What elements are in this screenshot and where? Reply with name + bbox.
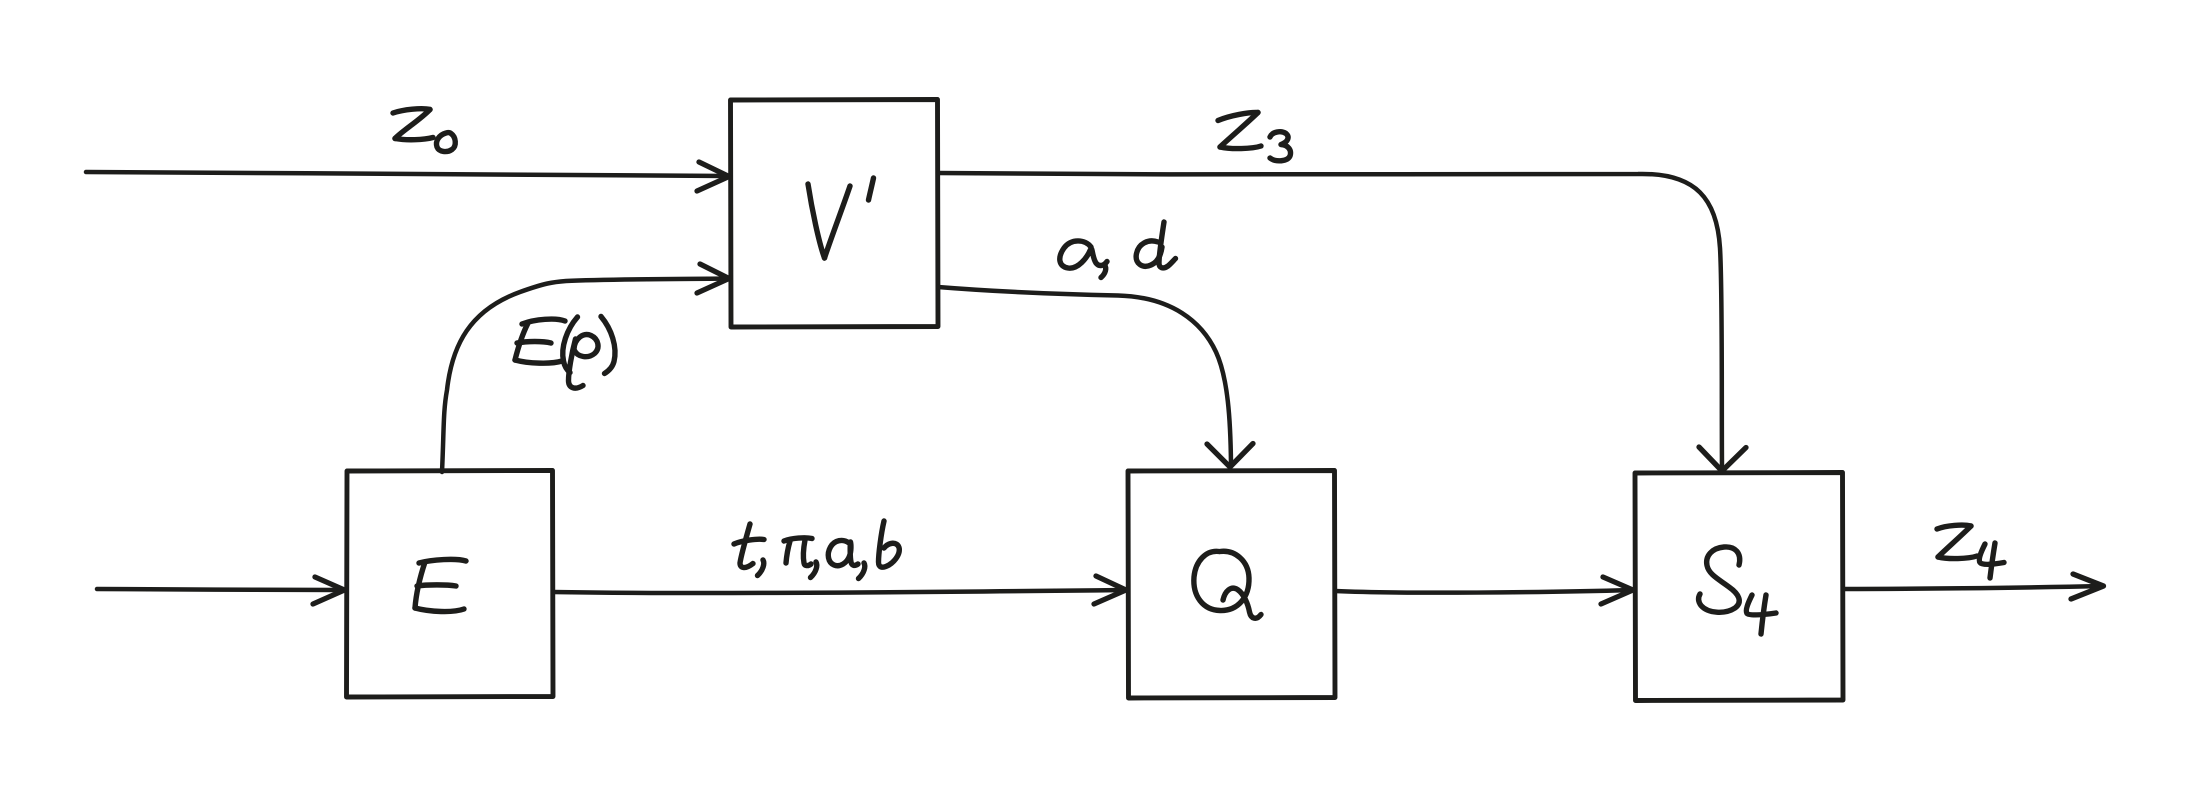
arrowhead into S4 top (1699, 447, 1746, 471)
block Q (1128, 471, 1335, 699)
arrowhead into Q top (1207, 444, 1253, 468)
label alpha, d (1060, 222, 1176, 278)
wire E(rho) curve from E top into V' lower-left input (442, 279, 728, 473)
arrowhead into V' top input (697, 162, 729, 191)
arrowhead into Q left (1094, 576, 1126, 604)
block V' (731, 100, 939, 328)
label E(rho) (515, 317, 615, 389)
wire E to Q (553, 590, 1125, 593)
wire alpha,d curve from V' right into Q top (938, 287, 1231, 464)
label Q (1194, 551, 1261, 618)
wire Z3 with corner down to S4 (938, 173, 1722, 468)
label S4 (1699, 547, 1776, 634)
wire S4 output (1843, 586, 2102, 589)
arrowhead into V' lower input (697, 264, 729, 293)
label Z3 (1218, 112, 1291, 160)
label t,pi,a,b (734, 521, 899, 579)
block E (347, 471, 554, 698)
label Z0 (393, 109, 455, 152)
label Z4 (1937, 525, 2004, 578)
arrowhead into S4 left (1601, 577, 1633, 604)
label E (415, 559, 466, 611)
block S4 (1635, 473, 1843, 701)
wire Q to S4 (1335, 590, 1632, 593)
arrowhead into E left (313, 577, 345, 604)
arrowhead output Z4 (2071, 574, 2104, 599)
label V' (808, 178, 874, 258)
wire input into E (97, 589, 341, 590)
wire Z0 (86, 172, 728, 176)
